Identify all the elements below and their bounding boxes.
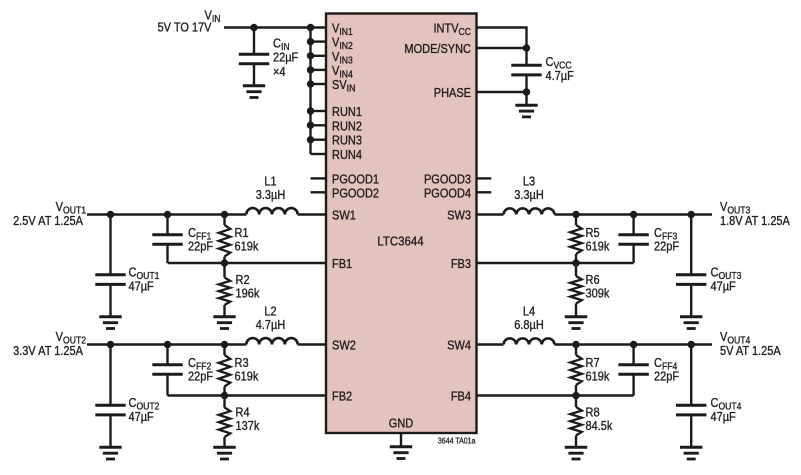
label COUT1: [129, 266, 160, 281]
svg-text:PHASE: PHASE: [434, 86, 471, 100]
label R7 value: [586, 370, 610, 384]
wire R3 top lead: [223, 345, 225, 356]
wire R3 bottom lead: [223, 387, 225, 396]
wire FB3 line: [476, 262, 634, 264]
junction R1-FB1: [221, 259, 228, 266]
inductor L1: [246, 208, 297, 214]
svg-text:LTC3644: LTC3644: [377, 234, 423, 249]
label L2: [264, 305, 276, 319]
svg-text:L1: L1: [264, 175, 276, 189]
svg-text:R3: R3: [235, 356, 249, 370]
resistor R8: [570, 407, 582, 436]
wire COUT2 top lead: [109, 345, 111, 405]
label R3 value: [235, 370, 259, 384]
wire SW pin to L3: [476, 213, 504, 215]
pin label SVIN: [332, 78, 355, 93]
resistor R6: [570, 276, 582, 304]
ground below R2: [213, 317, 235, 329]
pin label SW2: [332, 339, 356, 353]
junction COUT4-rail: [688, 341, 695, 348]
wire stub to pin RUN4: [311, 153, 327, 155]
wire L2 to SW pin: [298, 343, 326, 345]
junction R1-rail: [221, 211, 228, 218]
wire stub to pin SVIN: [311, 83, 327, 85]
node VOUT4 label: [720, 330, 750, 345]
resistor R5: [570, 225, 582, 254]
svg-text:L2: L2: [264, 305, 276, 319]
svg-text:RUN3: RUN3: [332, 134, 362, 148]
capacitor CIN: [239, 54, 269, 64]
op-amp U1 LTC3644 IC body: [326, 14, 477, 434]
svg-text:619k: 619k: [235, 370, 259, 384]
junction CFF1-rail: [164, 211, 171, 218]
svg-text:5V TO 17V: 5V TO 17V: [158, 21, 212, 35]
label CFF1: [188, 226, 211, 241]
junction bus-RUN2: [307, 122, 314, 129]
label COUT3: [711, 266, 742, 281]
svg-text:4.7µF: 4.7µF: [546, 69, 574, 83]
ground below COUT1: [99, 317, 121, 329]
pin label VIN4: [332, 64, 353, 79]
ground below COUT2: [99, 447, 121, 459]
label COUT1 value: [129, 280, 154, 294]
label L3 value: [514, 188, 544, 202]
label L2 value: [256, 318, 286, 332]
wire PHASE pin tie: [476, 91, 527, 93]
label R1 value: [235, 240, 259, 254]
wire VOUT2 rail left: [87, 343, 246, 345]
svg-text:R8: R8: [586, 406, 600, 420]
wire COUT3 bottom lead: [690, 286, 692, 318]
svg-text:6.8µH: 6.8µH: [514, 318, 544, 332]
wire stub to pin RUN3: [311, 138, 327, 140]
svg-text:22pF: 22pF: [188, 240, 213, 254]
junction MODE/SYNC-INTVCC: [523, 44, 530, 51]
ground below R8: [565, 447, 587, 459]
svg-text:47µF: 47µF: [711, 280, 736, 294]
pin label RUN2: [332, 120, 362, 134]
svg-text:SW4: SW4: [447, 339, 471, 353]
svg-text:3.3µH: 3.3µH: [514, 188, 544, 202]
wire R2 top lead: [223, 263, 225, 278]
wire COUT1 top lead: [109, 215, 111, 274]
svg-text:309k: 309k: [586, 287, 610, 301]
figure tag 3644 TA01a: [438, 436, 476, 446]
svg-text:SW3: SW3: [447, 209, 471, 223]
wire COUT2 bottom lead: [109, 416, 111, 448]
pin label SW4: [447, 339, 471, 353]
label CFF3: [654, 226, 677, 241]
wire INTVCC pin to CVCC: [476, 28, 527, 65]
junction R3-FB2: [221, 392, 228, 399]
svg-text:PGOOD3: PGOOD3: [424, 173, 471, 187]
svg-text:×4: ×4: [273, 65, 286, 79]
junction COUT2-rail: [107, 341, 114, 348]
ground below CIN: [243, 86, 265, 98]
label COUT4: [711, 396, 742, 411]
wire CFF4 bottom lead: [632, 376, 634, 396]
capacitor COUT3: [676, 275, 706, 285]
capacitor CFF1: [152, 235, 182, 245]
label CFF4 value: [654, 370, 679, 384]
wire MODE/SYNC pin tie: [476, 47, 527, 49]
label CFF2: [188, 356, 211, 371]
wire COUT4 top lead: [690, 345, 692, 405]
wire CFF4 top lead: [632, 345, 634, 364]
svg-text:R1: R1: [235, 226, 249, 240]
svg-text:3.3µH: 3.3µH: [256, 188, 286, 202]
svg-text:137k: 137k: [236, 419, 260, 433]
junction R5-rail: [572, 211, 579, 218]
svg-text:47µF: 47µF: [711, 410, 736, 424]
label COUT3 value: [711, 280, 736, 294]
wire stub to pin VIN2: [311, 40, 327, 42]
svg-text:L4: L4: [523, 305, 536, 319]
resistor R1: [219, 225, 231, 257]
wire R7 top lead: [575, 345, 577, 356]
wire R8 bottom lead: [575, 436, 577, 449]
inductor L2: [246, 338, 297, 344]
svg-text:5V AT 1.25A: 5V AT 1.25A: [720, 344, 781, 358]
pin label RUN4: [332, 148, 362, 162]
node VOUT2 label: [56, 330, 86, 345]
label VOUT4 rating: [720, 344, 781, 358]
wire SW pin to L4: [476, 343, 504, 345]
pin label FB2: [332, 390, 352, 404]
ground below GND pin: [390, 447, 412, 459]
ground below R6: [565, 317, 587, 329]
label L3: [523, 175, 536, 189]
capacitor CFF2: [152, 365, 182, 375]
svg-text:RUN4: RUN4: [332, 148, 362, 162]
wire CFF2 top lead: [166, 345, 168, 364]
svg-text:3644 TA01a: 3644 TA01a: [438, 436, 476, 446]
wire CFF3 bottom lead: [632, 246, 634, 264]
wire stub to pin VIN4: [311, 69, 327, 71]
svg-text:47µF: 47µF: [129, 280, 154, 294]
node VOUT1 label: [56, 200, 86, 215]
label L4 value: [514, 318, 544, 332]
wire CFF2 bottom lead: [166, 376, 168, 396]
label CIN value 22uF: [273, 51, 298, 65]
label R5: [586, 226, 600, 240]
junction bus-VIN2: [307, 38, 314, 45]
wire FB2 line: [168, 394, 327, 396]
wire VOUT4 rail right: [555, 343, 713, 345]
label COUT2: [129, 396, 160, 411]
wire R5 top lead: [575, 215, 577, 226]
inductor L3: [504, 208, 555, 214]
svg-text:FB2: FB2: [332, 390, 352, 404]
pin label PHASE: [434, 86, 471, 100]
svg-text:22µF: 22µF: [273, 51, 298, 65]
svg-text:619k: 619k: [586, 240, 610, 254]
junction PHASE-ground net: [523, 88, 530, 95]
svg-text:3.3V AT 1.25A: 3.3V AT 1.25A: [13, 344, 83, 358]
wire CFF1 bottom lead: [166, 246, 168, 264]
capacitor CFF4: [618, 365, 648, 375]
label R1: [235, 226, 249, 240]
junction bus-SVIN: [307, 80, 314, 87]
pin label FB1: [332, 257, 352, 271]
junction VIN bus top: [307, 24, 314, 31]
junction R3-rail: [221, 341, 228, 348]
svg-text:22pF: 22pF: [654, 370, 679, 384]
label COUT2 value: [129, 410, 154, 424]
label CFF2 value: [188, 370, 213, 384]
capacitor COUT4: [676, 405, 706, 415]
wire FB4 line: [476, 394, 634, 396]
pin label VIN1: [332, 22, 353, 37]
svg-text:RUN1: RUN1: [332, 105, 362, 119]
wire CFF3 top lead: [632, 215, 634, 234]
junction CFF4-rail: [630, 341, 637, 348]
pin label FB4: [451, 390, 472, 404]
wire VOUT3 rail right: [555, 213, 713, 215]
junction bus-RUN1: [307, 107, 314, 114]
label R2 value: [236, 287, 260, 301]
svg-text:SW2: SW2: [332, 339, 356, 353]
svg-text:R7: R7: [586, 356, 600, 370]
label R7: [586, 356, 600, 370]
junction R7-FB4: [572, 392, 579, 399]
ground below CVCC: [515, 105, 537, 117]
svg-text:FB3: FB3: [451, 257, 472, 271]
svg-text:84.5k: 84.5k: [586, 419, 613, 433]
resistor R3: [219, 355, 231, 387]
pin label INTVCC: [433, 22, 471, 37]
wire stub to pin RUN2: [311, 124, 327, 126]
svg-text:PGOOD1: PGOOD1: [332, 173, 379, 187]
label R5 value: [586, 240, 610, 254]
svg-text:196k: 196k: [236, 287, 260, 301]
pin label SW3: [447, 209, 471, 223]
pin label RUN1: [332, 105, 362, 119]
capacitor CFF3: [618, 235, 648, 245]
svg-text:SW1: SW1: [332, 209, 356, 223]
wire stub to pin VIN3: [311, 55, 327, 57]
pin label GND: [389, 417, 413, 431]
svg-text:47µF: 47µF: [129, 410, 154, 424]
ground below COUT3: [680, 317, 702, 329]
resistor R4: [219, 408, 231, 438]
wire stub to pin RUN1: [311, 110, 327, 112]
label R4 value: [236, 419, 260, 433]
wire R4 top lead: [223, 396, 225, 408]
svg-text:22pF: 22pF: [654, 240, 679, 254]
label R2: [236, 273, 250, 287]
label R3: [235, 356, 249, 370]
ground below COUT4: [680, 447, 702, 459]
capacitor COUT2: [95, 405, 125, 415]
svg-text:FB4: FB4: [451, 390, 472, 404]
svg-text:MODE/SYNC: MODE/SYNC: [404, 42, 471, 56]
wire R6 bottom lead: [575, 304, 577, 318]
wire stub pin PGOOD1: [311, 177, 327, 179]
junction bus-VIN3: [307, 52, 314, 59]
label R4: [236, 406, 250, 420]
wire FB1 line: [168, 262, 327, 264]
label CFF4: [654, 356, 677, 371]
wire R2 bottom lead: [223, 305, 225, 318]
label L1: [264, 175, 276, 189]
svg-text:4.7µH: 4.7µH: [256, 318, 286, 332]
wire GND pin lead: [400, 433, 402, 448]
label CFF1 value: [188, 240, 213, 254]
capacitor COUT1: [95, 275, 125, 285]
pin label SW1: [332, 209, 356, 223]
label R8: [586, 406, 600, 420]
svg-text:2.5V AT 1.25A: 2.5V AT 1.25A: [13, 214, 83, 228]
svg-text:619k: 619k: [235, 240, 259, 254]
wire COUT1 bottom lead: [109, 286, 111, 318]
junction R7-rail: [572, 341, 579, 348]
svg-text:R6: R6: [586, 273, 600, 287]
pin label FB3: [451, 257, 472, 271]
pin label VIN3: [332, 50, 353, 65]
wire CIN bottom lead: [253, 65, 255, 87]
svg-text:22pF: 22pF: [188, 370, 213, 384]
junction COUT3-rail: [688, 211, 695, 218]
wire stub pin PGOOD4: [477, 191, 492, 193]
junction R5-FB3: [572, 259, 579, 266]
junction VIN-CIN: [250, 24, 257, 31]
label L1 value: [256, 188, 286, 202]
wire R5 bottom lead: [575, 254, 577, 263]
pin label PGOOD4: [424, 187, 471, 201]
label CVCC value 4.7uF: [546, 69, 574, 83]
pin label PGOOD2: [332, 187, 379, 201]
label R8 value: [586, 419, 613, 433]
wire COUT3 top lead: [690, 215, 692, 274]
wire CVCC bottom lead: [525, 76, 527, 106]
label CFF3 value: [654, 240, 679, 254]
svg-text:GND: GND: [389, 417, 413, 431]
pin label VIN2: [332, 36, 353, 51]
node VIN label: [205, 9, 221, 24]
label VOUT1 rating: [13, 214, 83, 228]
wire CFF1 top lead: [166, 215, 168, 234]
svg-text:R2: R2: [236, 273, 250, 287]
svg-text:R5: R5: [586, 226, 600, 240]
wire stub pin PGOOD2: [311, 191, 327, 193]
wire R6 top lead: [575, 263, 577, 276]
label CVCC: [546, 55, 572, 70]
inductor L4: [504, 338, 555, 344]
resistor R7: [570, 355, 582, 385]
svg-text:FB1: FB1: [332, 257, 352, 271]
junction CFF2-rail: [164, 341, 171, 348]
VIN range label 5V TO 17V: [158, 21, 212, 35]
svg-text:R4: R4: [236, 406, 250, 420]
label L4: [523, 305, 536, 319]
wire stub pin PGOOD3: [477, 177, 492, 179]
label VOUT2 rating: [13, 344, 83, 358]
wire R7 bottom lead: [575, 385, 577, 396]
wire VIN vertical distribution bus: [309, 28, 311, 155]
label CIN: [273, 37, 290, 52]
label R6 value: [586, 287, 610, 301]
label CIN quantity x4: [273, 65, 286, 79]
wire R4 bottom lead: [223, 437, 225, 448]
svg-text:1.8V AT 1.25A: 1.8V AT 1.25A: [720, 214, 790, 228]
svg-text:RUN2: RUN2: [332, 120, 362, 134]
wire COUT4 bottom lead: [690, 416, 692, 448]
wire VOUT1 rail left: [87, 213, 246, 215]
label R6: [586, 273, 600, 287]
wire L1 to SW pin: [298, 213, 326, 215]
pin label PGOOD1: [332, 173, 379, 187]
pin label MODE/SYNC: [404, 42, 471, 56]
pin label PGOOD3: [424, 173, 471, 187]
junction bus-VIN4: [307, 66, 314, 73]
pin label RUN3: [332, 134, 362, 148]
svg-text:619k: 619k: [586, 370, 610, 384]
wire R8 top lead: [575, 396, 577, 408]
junction CFF3-rail: [630, 211, 637, 218]
svg-text:L3: L3: [523, 175, 536, 189]
junction bus-RUN3: [307, 136, 314, 143]
svg-text:PGOOD2: PGOOD2: [332, 187, 379, 201]
resistor R2: [219, 278, 231, 306]
capacitor CVCC: [511, 65, 541, 75]
label VOUT3 rating: [720, 214, 790, 228]
svg-text:PGOOD4: PGOOD4: [424, 187, 471, 201]
U1 part number label LTC3644: [377, 234, 423, 249]
junction COUT1-rail: [107, 211, 114, 218]
ground below R4: [213, 447, 235, 459]
wire R1 bottom lead: [223, 257, 225, 264]
node VOUT3 label: [720, 200, 750, 215]
wire R1 top lead: [223, 215, 225, 226]
wire CIN top lead: [253, 28, 255, 54]
label COUT4 value: [711, 410, 736, 424]
wire VIN input to VIN1 pin: [224, 26, 326, 28]
